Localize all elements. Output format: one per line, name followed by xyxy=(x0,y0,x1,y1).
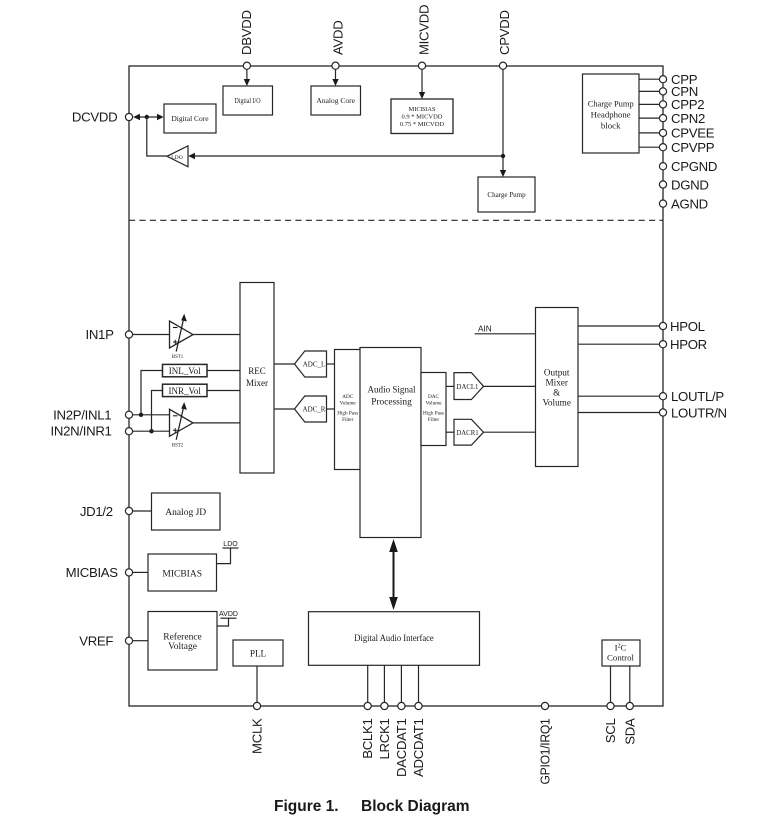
junction IN2N / INR_Vol xyxy=(149,429,153,433)
pin HPOR xyxy=(659,337,707,352)
wire DAI to LRCK1 xyxy=(383,665,385,702)
node IN1P label xyxy=(85,327,114,342)
wire BST1 to REC Mixer xyxy=(193,334,240,336)
block INL_Vol xyxy=(163,364,208,376)
svg-text:AGND: AGND xyxy=(671,196,708,211)
pin CPP2 xyxy=(659,97,704,112)
svg-text:block: block xyxy=(601,121,621,131)
wire DAC to DACR1 xyxy=(446,431,454,433)
amplifier BST1 xyxy=(170,314,194,360)
wire AVDD to Analog Core xyxy=(332,69,338,86)
wire to CPN xyxy=(639,90,659,92)
node JD1/2 label xyxy=(80,504,113,519)
block Analog JD xyxy=(152,493,221,530)
wire INL_Vol tap xyxy=(141,371,163,415)
pin CPP xyxy=(659,72,697,87)
svg-text:REC: REC xyxy=(248,366,266,376)
svg-text:MICBIAS: MICBIAS xyxy=(162,569,202,579)
block MICBIAS xyxy=(148,554,217,591)
wire ADC_L to ADC volume block xyxy=(327,363,335,365)
svg-text:Digital Core: Digital Core xyxy=(171,114,209,123)
svg-text:DACL1: DACL1 xyxy=(457,384,479,391)
svg-text:Figure 1.Block Diagram: Figure 1.Block Diagram xyxy=(274,798,470,815)
wire PLL to MCLK xyxy=(256,666,258,702)
wire IN2P to BST2 xyxy=(133,414,170,416)
pin GPIO1/IRQ1 xyxy=(541,702,548,709)
svg-text:Filter: Filter xyxy=(342,417,354,423)
node DCVDD label xyxy=(72,110,117,125)
svg-text:CPN2: CPN2 xyxy=(671,111,705,126)
wire DACL1 to Output Mixer xyxy=(484,385,536,387)
svg-text:DBVDD: DBVDD xyxy=(239,10,254,55)
block Analog Core xyxy=(311,86,361,115)
AVDD supply tap xyxy=(217,611,238,626)
pin ADCDAT1 xyxy=(415,702,422,709)
pin MICVDD xyxy=(418,62,425,69)
wire DAI to BCLK1 xyxy=(367,665,369,702)
pin IN2N/INR1 xyxy=(125,428,132,435)
amplifier BST2 xyxy=(170,402,194,448)
DACL1 converter xyxy=(454,373,484,400)
node BCLK1 label xyxy=(360,719,375,759)
svg-text:CPVEE: CPVEE xyxy=(671,126,715,141)
wire REC Mixer to ADC_L xyxy=(274,363,295,365)
pin CPGND xyxy=(659,159,717,174)
wire to CPP xyxy=(639,78,659,80)
svg-text:Volume: Volume xyxy=(425,401,442,407)
node IN2P/INL1 label xyxy=(53,407,111,422)
svg-text:I2C: I2C xyxy=(615,643,627,653)
wire DBVDD to Digtial I/O xyxy=(244,69,250,86)
svg-text:Processing: Processing xyxy=(371,397,412,407)
svg-text:AIN: AIN xyxy=(478,325,492,334)
wire to CPN2 xyxy=(639,117,659,119)
svg-text:INR_Vol: INR_Vol xyxy=(169,386,202,396)
wire I2C to SDA xyxy=(629,666,631,702)
pin CPN2 xyxy=(659,111,705,126)
node AIN xyxy=(475,325,536,334)
pin CPVEE xyxy=(659,126,714,141)
svg-text:AVDD: AVDD xyxy=(331,21,346,55)
block I2C Control xyxy=(602,640,640,666)
wire INL_Vol to REC Mixer xyxy=(207,370,240,372)
pin LRCK1 xyxy=(381,702,388,709)
node CPVDD label xyxy=(497,10,512,55)
wire VREF pin to block xyxy=(133,640,148,642)
wire to CPP2 xyxy=(639,103,659,105)
wire DAI to ADCDAT1 xyxy=(418,665,420,702)
svg-text:Reference: Reference xyxy=(163,632,202,643)
pin DGND xyxy=(659,177,708,192)
node DACDAT1 label xyxy=(394,719,409,777)
junction LDO output / DCVDD line xyxy=(145,115,149,119)
svg-text:SDA: SDA xyxy=(622,718,637,745)
block Audio Signal Processing xyxy=(360,348,421,538)
svg-text:CPGND: CPGND xyxy=(671,159,717,174)
node SDA label xyxy=(622,718,637,745)
pin JD1/2 xyxy=(125,507,132,514)
wire INR_Vol to REC Mixer xyxy=(207,390,240,392)
arrow ASP to DAI (bidirectional) xyxy=(389,539,398,610)
pin CPN xyxy=(659,84,698,99)
block Charge Pump xyxy=(478,177,535,212)
block Digital Audio Interface xyxy=(309,612,480,666)
svg-text:Charge Pump: Charge Pump xyxy=(588,99,635,109)
svg-text:JD1/2: JD1/2 xyxy=(80,504,113,519)
svg-text:MICVDD: MICVDD xyxy=(417,5,432,55)
pin IN2P/INL1 xyxy=(125,411,132,418)
svg-text:LDO: LDO xyxy=(171,155,183,161)
svg-text:IN2P/INL1: IN2P/INL1 xyxy=(53,407,111,422)
svg-text:ADC_L: ADC_L xyxy=(303,360,326,368)
pin CPVDD xyxy=(499,62,506,69)
node AVDD label xyxy=(331,21,346,55)
node MCLK label xyxy=(250,718,265,754)
node SCL label xyxy=(603,719,618,744)
svg-text:High Pass: High Pass xyxy=(337,411,358,417)
svg-text:Filter: Filter xyxy=(428,417,440,423)
svg-text:GPIO1/IRQ1: GPIO1/IRQ1 xyxy=(538,719,553,785)
pin IN1P xyxy=(125,331,132,338)
pin MCLK xyxy=(253,702,260,709)
svg-text:HPOL: HPOL xyxy=(670,319,705,334)
svg-text:Output: Output xyxy=(544,368,570,378)
wire Output Mixer to HPOL xyxy=(578,325,659,327)
wire MICVDD to MICBIAS xyxy=(419,69,425,99)
svg-text:VREF: VREF xyxy=(79,634,113,649)
node GPIO1/IRQ1 label xyxy=(538,719,553,785)
svg-text:SCL: SCL xyxy=(603,719,618,744)
wire MICBIAS pin to block xyxy=(133,571,148,573)
svg-text:Mixer: Mixer xyxy=(246,378,268,388)
wire DACR1 to Output Mixer xyxy=(484,431,536,433)
junction IN2P / INL_Vol xyxy=(139,413,143,417)
svg-text:IN1P: IN1P xyxy=(85,327,114,342)
block Digtial I/O xyxy=(223,86,273,115)
svg-text:CPVDD: CPVDD xyxy=(497,10,512,55)
pin CPVPP xyxy=(659,140,714,155)
svg-text:LOUTL/P: LOUTL/P xyxy=(671,389,724,404)
svg-text:Charge Pump: Charge Pump xyxy=(487,191,526,199)
wire Output Mixer to HPOR xyxy=(578,343,659,345)
svg-text:Control: Control xyxy=(607,653,634,663)
svg-text:IN2N/INR1: IN2N/INR1 xyxy=(51,424,112,439)
LDO regulator triangle xyxy=(167,146,188,167)
pin LOUTL/P xyxy=(659,389,724,404)
node IN2N/INR1 label xyxy=(51,424,112,439)
ADC_L converter xyxy=(295,351,327,377)
node MICBIAS label xyxy=(66,565,119,580)
dashed analog/digital divider xyxy=(129,219,663,221)
LDO supply tap xyxy=(217,541,239,564)
DACR1 converter xyxy=(454,419,484,445)
wire INR_Vol tap xyxy=(152,391,163,432)
wire IN2N to BST2 xyxy=(133,430,170,432)
wire CPVDD down to Charge Pump xyxy=(500,69,506,177)
wire Output Mixer to LOUTL/P xyxy=(578,395,659,397)
svg-text:DACR1: DACR1 xyxy=(456,430,478,437)
svg-text:MICBIAS: MICBIAS xyxy=(66,565,119,580)
svg-text:Volume: Volume xyxy=(542,398,570,408)
svg-text:LOUTR/N: LOUTR/N xyxy=(671,405,727,420)
pin MICBIAS xyxy=(125,569,132,576)
svg-text:BST2: BST2 xyxy=(172,443,184,448)
svg-text:Digital Audio Interface: Digital Audio Interface xyxy=(354,633,434,643)
svg-text:High Pass: High Pass xyxy=(423,411,444,417)
svg-text:Volume: Volume xyxy=(340,401,357,407)
wire ADC_R to ADC volume block xyxy=(327,408,335,410)
wire BST2 to REC Mixer xyxy=(193,422,240,424)
svg-text:CPVPP: CPVPP xyxy=(671,140,715,155)
wire JD1/2 to Analog JD xyxy=(133,510,152,512)
node ADCDAT1 label xyxy=(411,719,426,777)
pin DCVDD xyxy=(125,113,132,120)
node VREF label xyxy=(79,634,113,649)
pin VREF xyxy=(125,637,132,644)
svg-text:LDO: LDO xyxy=(223,541,238,548)
svg-text:&: & xyxy=(553,388,560,398)
chip boundary xyxy=(129,66,663,706)
block REC Mixer xyxy=(240,283,274,474)
junction CPVDD/LDO feed xyxy=(501,154,505,158)
block DAC Volume / High Pass Filter xyxy=(421,373,446,446)
svg-text:Voltage: Voltage xyxy=(168,642,197,652)
svg-text:MCLK: MCLK xyxy=(250,718,265,754)
svg-text:INL_Vol: INL_Vol xyxy=(169,366,201,376)
svg-text:ADCDAT1: ADCDAT1 xyxy=(411,719,426,777)
pin AVDD xyxy=(332,62,339,69)
pin AGND xyxy=(659,196,708,211)
wire DCVDD to Digital Core (double arrow) xyxy=(133,114,164,120)
wire to CPVPP xyxy=(639,146,659,148)
wire DAI to DACDAT1 xyxy=(400,665,402,702)
svg-text:MICBIAS: MICBIAS xyxy=(408,106,435,113)
svg-text:Analog JD: Analog JD xyxy=(165,508,206,518)
block Digital Core xyxy=(164,104,216,133)
pin DBVDD xyxy=(243,62,250,69)
wire IN1P to BST1 xyxy=(133,334,170,336)
wire to CPVEE xyxy=(639,132,659,134)
wire DAC to DACL1 xyxy=(446,385,454,387)
svg-text:DGND: DGND xyxy=(671,177,709,192)
svg-text:BCLK1: BCLK1 xyxy=(360,719,375,759)
pin LOUTR/N xyxy=(659,405,726,420)
svg-text:ADC: ADC xyxy=(342,394,353,400)
svg-text:HPOR: HPOR xyxy=(670,337,707,352)
svg-text:0.75 * MICVDD: 0.75 * MICVDD xyxy=(400,121,445,128)
wire LDO feed line xyxy=(188,153,503,159)
block Reference Voltage xyxy=(148,612,217,671)
wire I2C to SCL xyxy=(610,666,612,702)
svg-text:BST1: BST1 xyxy=(172,355,184,360)
block Output Mixer & Volume xyxy=(536,308,579,467)
node LRCK1 label xyxy=(377,719,392,760)
pin SDA xyxy=(626,702,633,709)
wire LDO output to DCVDD line xyxy=(147,117,167,156)
svg-text:Mixer: Mixer xyxy=(545,378,567,388)
pin DACDAT1 xyxy=(398,702,405,709)
pin SCL xyxy=(607,702,614,709)
svg-text:Headphone: Headphone xyxy=(591,110,631,120)
svg-text:PLL: PLL xyxy=(250,649,267,659)
svg-text:AVDD: AVDD xyxy=(219,611,238,618)
pin HPOL xyxy=(659,319,704,334)
svg-text:LRCK1: LRCK1 xyxy=(377,719,392,760)
caption Figure 1. Block Diagram xyxy=(274,798,470,815)
node DBVDD label xyxy=(239,10,254,55)
block PLL xyxy=(233,640,283,666)
svg-text:Audio Signal: Audio Signal xyxy=(368,385,416,395)
svg-text:Digtial I/O: Digtial I/O xyxy=(235,96,261,105)
ADC_R converter xyxy=(295,396,327,422)
svg-text:DACDAT1: DACDAT1 xyxy=(394,719,409,777)
block ADC Volume / High Pass Filter xyxy=(335,350,362,470)
block INR_Vol xyxy=(163,384,208,396)
svg-text:DCVDD: DCVDD xyxy=(72,110,117,125)
svg-text:DAC: DAC xyxy=(428,394,439,400)
svg-text:ADC_R: ADC_R xyxy=(303,405,326,413)
wire REC Mixer to ADC_R xyxy=(274,408,295,410)
wire Output Mixer to LOUTR/N xyxy=(578,412,659,414)
svg-text:Analog Core: Analog Core xyxy=(316,96,355,105)
svg-text:0.9 * MICVDD: 0.9 * MICVDD xyxy=(402,114,443,121)
node MICVDD label xyxy=(417,5,432,55)
block Charge Pump Headphone block xyxy=(583,74,640,153)
block MICBIAS (supply) xyxy=(391,99,453,134)
pin BCLK1 xyxy=(364,702,371,709)
